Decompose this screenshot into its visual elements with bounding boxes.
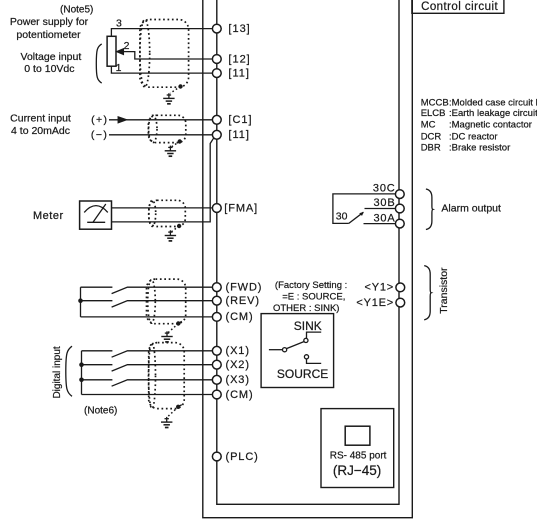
switch SW-X3	[82, 380, 213, 386]
selector common circle	[283, 348, 287, 352]
terminal (CM) lower	[212, 390, 221, 399]
shield S5 junction dot	[176, 405, 180, 409]
terminal 30C	[395, 190, 404, 199]
svg-text:[11]: [11]	[228, 68, 250, 80]
meter M1 scale arc	[84, 206, 108, 213]
svg-text:=E : SOURCE,: =E : SOURCE,	[282, 292, 345, 303]
terminal [11]	[212, 69, 221, 78]
terminal (X3)	[212, 375, 221, 384]
svg-text:(REV): (REV)	[226, 295, 260, 307]
svg-text:(FWD): (FWD)	[226, 282, 263, 294]
wire wiper to terminal 12	[123, 52, 213, 59]
wire meter to FMA	[112, 207, 212, 209]
shield S2 end ellipse	[149, 115, 157, 142]
shield S3 drain wire (dotted)	[172, 226, 180, 232]
svg-text:(Note5): (Note5)	[60, 4, 93, 15]
wire CM lower	[82, 394, 213, 396]
shield S4 arrow tick	[178, 321, 182, 323]
svg-text::Brake resistor: :Brake resistor	[449, 143, 510, 154]
svg-text:(RJ−45): (RJ−45)	[333, 463, 381, 478]
shield S5 drain wire (dotted)	[168, 407, 179, 417]
svg-text:Power supply for: Power supply for	[10, 16, 89, 28]
svg-text:[12]: [12]	[228, 53, 250, 65]
terminal (X2)	[212, 360, 221, 369]
terminal Y1E	[396, 298, 405, 307]
svg-text:DBR: DBR	[421, 143, 441, 154]
svg-text:(+): (+)	[91, 114, 108, 126]
terminal (REV)	[212, 296, 221, 305]
wire CM upper	[81, 316, 213, 318]
ground G2	[165, 146, 176, 157]
potentiometer R1 body	[107, 36, 116, 66]
svg-text:(X3): (X3)	[226, 374, 250, 386]
selector blade	[287, 342, 304, 349]
junction dot X3	[79, 378, 84, 383]
current input (-) wire to 11	[109, 134, 212, 136]
svg-text:[C1]: [C1]	[228, 114, 252, 126]
terminal 30A	[395, 219, 404, 228]
terminal [FMA]	[212, 204, 221, 213]
svg-text:SOURCE: SOURCE	[277, 367, 328, 381]
svg-text:2: 2	[124, 40, 130, 52]
wire pot pin1 to terminal 11	[111, 66, 212, 73]
wire terminal 13 from potentiometer pin 3	[111, 29, 212, 37]
relay 30 blade arrowhead	[359, 212, 364, 216]
ground G1	[163, 93, 174, 104]
meter M1 needle	[93, 204, 106, 222]
svg-text::Earth leakage circuit breaker: :Earth leakage circuit breaker	[449, 108, 537, 119]
terminal [13]	[212, 24, 221, 33]
left terminal circles	[212, 24, 404, 461]
ground G4	[161, 331, 172, 342]
X1-X3 common bus	[81, 351, 83, 395]
terminal (CM)	[212, 313, 221, 322]
junction dot X2	[79, 362, 84, 367]
wire 30B stub	[365, 208, 396, 210]
inner terminal-rail box	[217, 0, 399, 504]
RS-485 port box	[321, 409, 394, 488]
outer control-circuit enclosure box	[203, 0, 412, 518]
terminal [11] lower	[212, 130, 221, 139]
shield S3 around meter wires (dotted)	[149, 200, 185, 226]
terminal [C1]	[212, 115, 221, 124]
selector common wire	[269, 349, 283, 351]
terminal 30B	[395, 204, 404, 213]
switch SW-REV	[81, 301, 213, 307]
shield S1 end ellipse	[140, 20, 150, 88]
terminal (X1)	[212, 346, 221, 355]
terminal Y1	[396, 283, 405, 292]
svg-text:Meter: Meter	[33, 210, 64, 222]
relay 30 blade	[349, 212, 364, 223]
shield S1 junction dot	[178, 84, 182, 88]
sink contact stub	[307, 332, 322, 338]
svg-text:<Y1>: <Y1>	[364, 282, 394, 294]
svg-text:Control circuit: Control circuit	[421, 1, 498, 13]
source contact stub	[307, 359, 322, 364]
Control circuit label box	[412, 0, 504, 13]
svg-text:<Y1E>: <Y1E>	[356, 297, 394, 309]
svg-text:Current input: Current input	[10, 112, 71, 124]
shield S5 around X wires (dotted)	[149, 343, 185, 409]
svg-text:Digital input: Digital input	[52, 346, 63, 398]
shield S2 around current wires (dotted)	[148, 115, 185, 142]
svg-text::DC reactor: :DC reactor	[449, 131, 498, 142]
switch SW-X1	[82, 351, 213, 357]
svg-text:potentiometer: potentiometer	[16, 29, 81, 41]
ground G3	[165, 230, 176, 241]
svg-text::Magnetic contactor: :Magnetic contactor	[449, 119, 532, 130]
svg-text:ELCB: ELCB	[421, 108, 446, 119]
svg-text:30A: 30A	[374, 212, 396, 224]
svg-text:(X2): (X2)	[226, 359, 250, 371]
sink contact circle	[304, 338, 308, 342]
svg-text:OTHER : SINK): OTHER : SINK)	[273, 303, 340, 314]
digital input group bracket	[66, 346, 72, 396]
switch SW-FWD	[81, 287, 213, 293]
svg-text::Molded case circuit breaker: :Molded case circuit breaker	[449, 97, 537, 108]
svg-text:30C: 30C	[373, 182, 396, 194]
svg-text:(PLC): (PLC)	[226, 451, 259, 463]
shield S1 drain wire to ground (dotted)	[170, 87, 180, 94]
svg-text:Transistor: Transistor	[438, 267, 450, 314]
ground G5	[161, 417, 172, 428]
svg-text:[11]: [11]	[228, 129, 250, 141]
svg-text:MC: MC	[421, 119, 436, 130]
svg-text:4 to 20mAdc: 4 to 20mAdc	[11, 125, 70, 137]
shield S5 arrow tick	[178, 405, 182, 407]
svg-text:(−): (−)	[91, 129, 108, 141]
shield S2 junction dot	[178, 139, 182, 143]
junction dot REV bus	[78, 298, 83, 303]
svg-text:Voltage input: Voltage input	[21, 51, 82, 63]
wire 30A stub	[364, 223, 396, 225]
svg-text:1: 1	[116, 62, 122, 74]
shield S1 around pot wires (dotted)	[140, 20, 189, 88]
svg-text:(Factory Setting :: (Factory Setting :	[275, 280, 347, 291]
terminal (PLC)	[212, 452, 221, 461]
switch SW-X2	[82, 365, 213, 371]
svg-text:[13]: [13]	[228, 23, 250, 35]
potentiometer wiper arrow	[117, 49, 124, 55]
SINK/SOURCE selector box	[261, 314, 334, 388]
svg-text:30: 30	[336, 211, 348, 223]
RJ-45 jack rectangle	[345, 426, 370, 445]
svg-text:DCR: DCR	[421, 131, 442, 142]
shield S3 end ellipse	[149, 200, 156, 226]
alarm output brace	[426, 189, 433, 230]
wire meter return to terminal 11 (bypass)	[112, 138, 214, 222]
shield S2 drain wire (dotted)	[172, 142, 180, 147]
current input arrowhead	[118, 117, 126, 123]
svg-text:SINK: SINK	[294, 319, 322, 333]
relay 30 common wire from 30C	[333, 194, 396, 224]
shield S4 junction dot	[176, 321, 180, 325]
source contact circle	[304, 355, 308, 359]
meter M1 base line	[87, 221, 105, 223]
svg-text:RS- 485 port: RS- 485 port	[330, 451, 387, 462]
svg-text:0 to 10Vdc: 0 to 10Vdc	[24, 63, 74, 75]
voltage input group bracket	[96, 44, 101, 83]
svg-text:3: 3	[116, 18, 122, 30]
shield S3 junction dot	[177, 224, 181, 228]
svg-text:[FMA]: [FMA]	[224, 202, 258, 214]
transistor output brace	[424, 266, 431, 320]
FWD/REV common bus	[80, 287, 82, 317]
svg-text:(Note6): (Note6)	[84, 405, 117, 416]
terminal (FWD)	[212, 283, 221, 292]
shield S4 drain wire (dotted)	[168, 324, 178, 333]
svg-text:Alarm output: Alarm output	[441, 203, 501, 215]
svg-text:30B: 30B	[374, 197, 396, 209]
shield S4 end ellipse	[148, 280, 156, 324]
terminal [12]	[212, 55, 221, 64]
current input (+) wire with arrow to C1	[109, 119, 212, 121]
svg-text:(CM): (CM)	[226, 311, 254, 323]
svg-text:(X1): (X1)	[226, 345, 250, 357]
meter M1 body	[80, 201, 112, 229]
svg-text:MCCB: MCCB	[421, 97, 449, 108]
svg-text:(CM): (CM)	[226, 389, 254, 401]
shield S4 around FWD/REV wires (dotted)	[147, 279, 186, 324]
shield S5 end ellipse	[149, 343, 156, 409]
